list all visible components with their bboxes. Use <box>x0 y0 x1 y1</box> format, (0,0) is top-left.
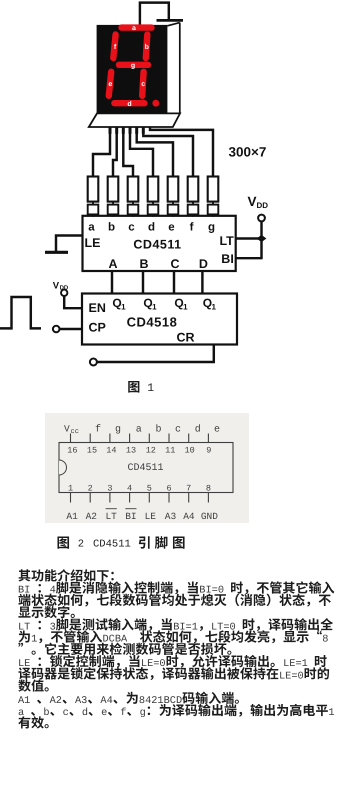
svg-text:d: d <box>195 424 201 436</box>
svg-text:f: f <box>120 707 126 719</box>
svg-text:a: a <box>136 425 142 436</box>
svg-text:g: g <box>115 425 121 436</box>
caption Fig.2 <box>57 537 69 549</box>
svg-text:BI: BI <box>125 511 136 522</box>
wire a-R1 <box>93 131 110 177</box>
svg-text:1: 1 <box>68 484 73 494</box>
resistor R6 <box>188 177 199 202</box>
wire f-R6 <box>143 131 193 177</box>
svg-text:e: e <box>168 222 174 234</box>
wire g-R7 <box>150 128 213 177</box>
junction node LT/VDD <box>257 235 267 242</box>
svg-text:LE=0: LE=0 <box>141 658 166 670</box>
segment e <box>109 72 111 96</box>
package notch <box>59 460 67 475</box>
caption Fig.1 <box>128 381 139 393</box>
svg-text:LE=1: LE=1 <box>283 658 308 670</box>
svg-text:CP: CP <box>89 321 106 335</box>
wire CP <box>60 328 83 330</box>
display pins <box>109 127 112 134</box>
svg-text:e: e <box>214 425 220 436</box>
svg-text:A: A <box>108 257 117 271</box>
resistor R1 <box>88 177 99 202</box>
svg-text:e: e <box>101 707 107 719</box>
wire VDD down <box>260 221 262 258</box>
svg-text:b: b <box>145 43 149 51</box>
svg-text:1: 1 <box>183 303 188 312</box>
wire LE to ground <box>56 236 83 252</box>
svg-text:A1: A1 <box>18 695 30 707</box>
svg-text:8: 8 <box>322 634 328 646</box>
segment d <box>114 100 144 106</box>
wire C-Q3 <box>173 271 175 294</box>
svg-text:5: 5 <box>147 484 152 494</box>
svg-text:LE: LE <box>85 236 101 250</box>
resistor R2 <box>108 177 119 202</box>
VDD left terminal circle <box>61 290 67 296</box>
resistor R4 <box>148 177 159 202</box>
svg-text:A2: A2 <box>50 695 62 707</box>
svg-text:g: g <box>140 707 146 719</box>
svg-text:14: 14 <box>106 446 116 456</box>
resistor R3 <box>128 177 139 202</box>
svg-text:c: c <box>128 222 135 234</box>
clock pulse waveform <box>0 297 41 328</box>
pin box e <box>168 205 179 215</box>
svg-text:8421BCD: 8421BCD <box>139 695 182 707</box>
svg-text:8: 8 <box>206 484 211 494</box>
svg-text:B: B <box>139 257 148 271</box>
svg-text:b: b <box>43 707 49 719</box>
overline LT <box>106 508 117 510</box>
op IC U1 CD4511 body <box>83 216 236 271</box>
svg-text:C: C <box>170 257 179 271</box>
svg-text:LE: LE <box>145 511 157 522</box>
svg-text:3: 3 <box>107 484 112 494</box>
svg-text:CD4511: CD4511 <box>133 238 181 252</box>
svg-text:A4: A4 <box>183 511 195 522</box>
wire D-Q4 <box>201 271 203 294</box>
svg-text:7: 7 <box>186 484 191 494</box>
svg-text:A1: A1 <box>66 511 78 522</box>
svg-text:A3: A3 <box>75 695 87 707</box>
pin box g <box>208 205 219 215</box>
svg-text:e: e <box>108 81 112 88</box>
svg-text:cc: cc <box>71 428 79 436</box>
svg-text:g: g <box>131 62 135 69</box>
svg-text:1: 1 <box>211 303 216 312</box>
svg-text:A4: A4 <box>100 695 112 707</box>
wire d-R4 <box>130 131 153 177</box>
wire LT <box>236 237 262 239</box>
svg-text:d: d <box>82 707 88 719</box>
IC package outline <box>59 443 233 493</box>
svg-text:BI: BI <box>221 252 234 266</box>
segment f <box>113 35 115 59</box>
wire A-Q1 <box>111 271 113 294</box>
svg-text:6: 6 <box>166 484 171 494</box>
pin box f <box>188 205 199 215</box>
svg-text:13: 13 <box>126 446 136 456</box>
wire: display common terminal riser <box>140 3 169 26</box>
svg-text:GND: GND <box>201 511 218 522</box>
display DS1 front face <box>97 25 168 113</box>
overline BI <box>125 508 136 510</box>
svg-text:9: 9 <box>206 446 211 456</box>
svg-text:b: b <box>108 222 115 234</box>
svg-text:1: 1 <box>328 707 334 719</box>
svg-text:BI=1: BI=1 <box>173 621 198 633</box>
svg-text:16: 16 <box>67 446 77 456</box>
wire b-R2 <box>113 131 117 177</box>
svg-text:11: 11 <box>165 446 175 456</box>
svg-text:d: d <box>127 100 131 108</box>
resistor R5 <box>168 177 179 202</box>
pin box a <box>88 205 99 215</box>
description text <box>18 569 30 581</box>
CR terminal circle <box>90 359 97 366</box>
CP terminal circle <box>53 326 60 333</box>
svg-text:b: b <box>155 424 161 436</box>
wire e-R5 <box>137 131 173 177</box>
svg-text:a: a <box>88 222 95 234</box>
svg-text:LT: LT <box>105 511 117 522</box>
svg-text:10: 10 <box>184 446 194 456</box>
wire BI <box>236 257 263 259</box>
svg-text:DD: DD <box>257 201 269 210</box>
svg-text:1: 1 <box>121 303 126 312</box>
svg-text:d: d <box>148 222 155 234</box>
svg-text:CD4511: CD4511 <box>127 463 163 474</box>
wire B-Q2 <box>142 271 144 294</box>
terminal bar (common pin stub) <box>157 19 184 22</box>
svg-text:A3: A3 <box>165 511 177 522</box>
display DS1 base (bottom face) <box>89 113 180 127</box>
pin box c <box>128 205 139 215</box>
svg-text:V: V <box>64 424 70 435</box>
segment b <box>146 35 148 59</box>
svg-text:300×7: 300×7 <box>229 145 267 160</box>
counter IC U2 CD4518 body <box>82 294 237 345</box>
wire c-R3 <box>123 131 133 177</box>
svg-text:15: 15 <box>87 446 97 456</box>
VDD terminal circle <box>258 215 265 222</box>
svg-text:c: c <box>175 425 181 436</box>
svg-text:4: 4 <box>127 484 132 494</box>
svg-text:EN: EN <box>89 301 106 315</box>
svg-text:LT: LT <box>219 234 234 248</box>
svg-text:12: 12 <box>146 446 156 456</box>
svg-text:f: f <box>95 424 101 436</box>
decimal point <box>152 100 159 107</box>
svg-text:CD4511: CD4511 <box>93 539 131 551</box>
resistor R7 <box>208 177 219 202</box>
svg-text:c: c <box>141 81 145 88</box>
pin box b <box>108 205 119 215</box>
pin box d <box>148 205 159 215</box>
svg-text:c: c <box>63 707 69 719</box>
display DS1 3D back edge <box>167 23 179 26</box>
svg-text:1: 1 <box>152 303 157 312</box>
svg-text:CD4518: CD4518 <box>127 315 178 330</box>
wire CR <box>97 345 214 363</box>
svg-text:CR: CR <box>176 331 194 345</box>
svg-text:LE=0: LE=0 <box>279 670 304 682</box>
svg-text:f: f <box>190 222 194 234</box>
wire VDD-EN <box>64 296 82 308</box>
svg-text:a: a <box>132 25 136 32</box>
segment a <box>122 24 152 30</box>
svg-text:2: 2 <box>78 539 84 551</box>
package pin stubs <box>70 434 72 443</box>
svg-text:D: D <box>199 257 208 271</box>
figure 2 background <box>45 413 249 523</box>
svg-text:1: 1 <box>31 634 37 646</box>
svg-text:A2: A2 <box>86 511 98 522</box>
segment c <box>142 72 143 96</box>
svg-text:V: V <box>248 194 257 209</box>
ground <box>45 251 68 254</box>
svg-text:1: 1 <box>147 382 154 395</box>
svg-text:g: g <box>208 222 215 234</box>
segment g <box>119 62 148 68</box>
svg-text:2: 2 <box>88 484 93 494</box>
